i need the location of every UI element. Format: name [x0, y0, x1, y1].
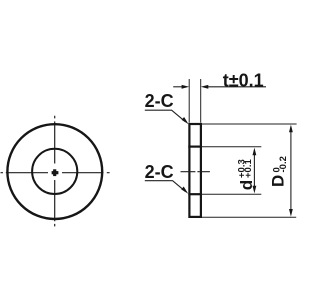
wire: D extension line top: [202, 123, 297, 125]
wire: front-view vertical centerline: [54, 116, 56, 227]
node: d arrow up: [253, 148, 257, 156]
svg-text:D: D: [269, 175, 288, 187]
wire: 2-C leader top: [145, 110, 186, 122]
D dimension value label (rotated): [269, 156, 290, 187]
wire: d extension line upper: [202, 146, 261, 148]
svg-text:+0.1: +0.1: [243, 159, 254, 178]
d dimension value label (rotated): [237, 159, 257, 191]
washer section rectangle (side view): [189, 124, 201, 217]
wire: t dimension line right segment: [208, 86, 266, 88]
node: 2-C arrow bottom: [181, 187, 188, 194]
wire: hole lower edge line in section: [188, 193, 202, 195]
wire: side-view centerline: [181, 171, 210, 173]
wire: t dimension line left segment: [173, 86, 182, 88]
wire: D extension line bottom: [202, 216, 296, 218]
wire: D dimension line: [290, 127, 292, 214]
wire: front-view horizontal centerline: [1, 172, 110, 174]
node: D arrow down: [289, 209, 293, 217]
node: t arrow right: [201, 85, 209, 89]
svg-text:t±0.1: t±0.1: [223, 71, 264, 91]
wire: d extension line lower: [202, 193, 261, 195]
node: d arrow down: [253, 186, 257, 194]
svg-text:-0.2: -0.2: [278, 156, 289, 172]
wire: 2-C leader bottom: [145, 181, 185, 192]
node: 2-C arrow top: [182, 117, 189, 124]
washer inner circle (front view hole d): [32, 149, 77, 194]
wire: d dimension line: [253, 150, 255, 191]
wire: hole upper edge line in section: [188, 146, 202, 148]
washer outer circle (front view OD): [7, 124, 102, 219]
svg-text:d: d: [237, 180, 256, 190]
wire: t extension line right: [200, 79, 202, 123]
node: D arrow up: [289, 125, 293, 133]
node: t arrow left: [182, 85, 190, 89]
svg-text:2-C: 2-C: [145, 91, 174, 111]
node: center mark plus: [52, 171, 59, 174]
svg-text:2-C: 2-C: [145, 162, 174, 182]
wire: t extension line left: [188, 79, 190, 123]
